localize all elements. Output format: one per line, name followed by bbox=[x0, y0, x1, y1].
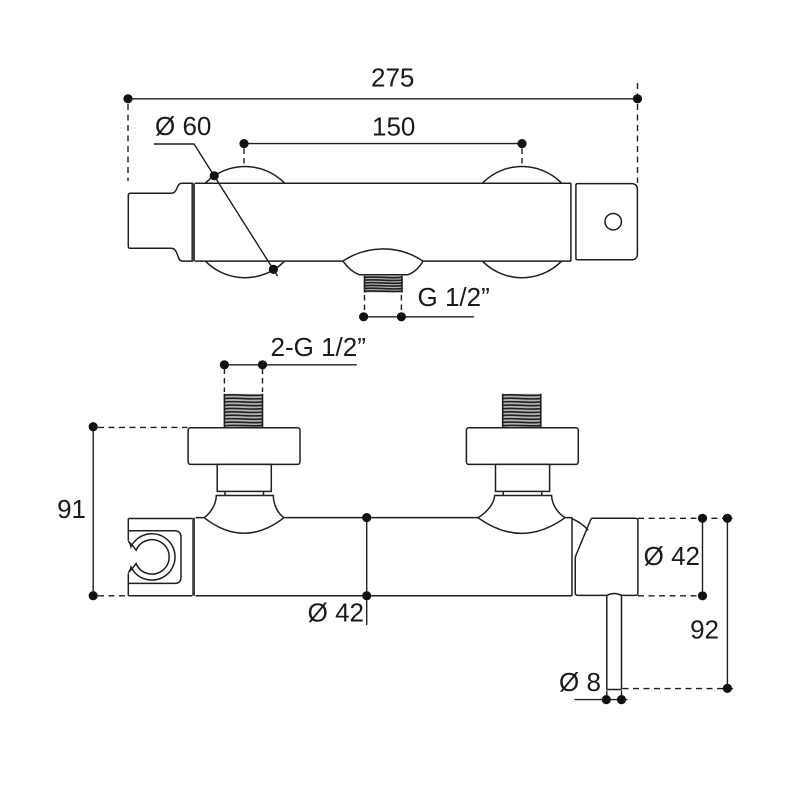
extension dashed right (275) bbox=[637, 83, 639, 183]
bar body (lower view) bbox=[196, 518, 572, 596]
svg-text:150: 150 bbox=[372, 112, 415, 142]
92 extension dashed bottom bbox=[623, 688, 734, 690]
leader line Ø60 bbox=[154, 144, 278, 276]
handle and collar (top view left end) bbox=[128, 183, 192, 261]
right inlet flange bbox=[466, 428, 578, 465]
svg-text:Ø 42: Ø 42 bbox=[644, 541, 700, 571]
bar body (top view) bbox=[194, 183, 577, 261]
DIMENSIONS LOWER VIEW bbox=[93, 365, 733, 704]
svg-text:92: 92 bbox=[690, 615, 719, 645]
elbow bend fillet arc bbox=[572, 519, 588, 530]
92 dimension line bbox=[726, 518, 728, 688]
left inlet thread bbox=[224, 394, 262, 428]
svg-text:Ø 42: Ø 42 bbox=[308, 598, 364, 628]
right inlet dome outline bbox=[478, 496, 565, 518]
91 extension dashed top bbox=[98, 426, 188, 428]
bracket C-ring holder bbox=[128, 534, 175, 580]
Ø8 dashed stubs bbox=[607, 691, 622, 705]
bar right end line (top view) bbox=[570, 183, 572, 261]
G1/2 dashed stubs bbox=[365, 295, 402, 313]
svg-text:91: 91 bbox=[57, 494, 86, 524]
right Ø42 dimension line bbox=[702, 518, 704, 596]
left inlet dome outline bbox=[204, 496, 283, 518]
extension dashed stub left (150) bbox=[243, 149, 245, 166]
left inlet flange bbox=[188, 428, 300, 465]
bracket inner plate bbox=[128, 531, 181, 584]
labels top view bbox=[155, 63, 490, 313]
svg-text:Ø 8: Ø 8 bbox=[559, 667, 601, 697]
G1/2 dimension line bbox=[364, 316, 474, 318]
outlet boss dome bbox=[343, 249, 423, 275]
outlet thread G1/2 (top view) bbox=[365, 276, 403, 293]
Ø8 dimension line bbox=[574, 699, 627, 701]
joint line handle/bar (top view) bbox=[192, 183, 195, 261]
2-G1/2 dimension line bbox=[224, 364, 356, 366]
extension dashed left (275) bbox=[127, 104, 129, 181]
escutcheon circle right (Ø60) bbox=[466, 167, 577, 278]
bar bottom edge left segment bbox=[195, 260, 343, 262]
bar bottom edge right segment bbox=[423, 260, 571, 262]
right cap (top view) bbox=[576, 184, 638, 260]
dimension 275 line bbox=[128, 98, 638, 100]
svg-text:275: 275 bbox=[371, 63, 414, 93]
dots top view bbox=[123, 94, 642, 321]
bar bottom edge bbox=[196, 595, 572, 597]
right inlet smile arc bbox=[478, 518, 565, 534]
DIMENSIONS TOP VIEW bbox=[128, 83, 638, 317]
dimension 150 line bbox=[244, 143, 522, 145]
Ø42 centre dimension line bbox=[366, 518, 368, 625]
bar top edge segments bbox=[196, 517, 572, 519]
bracket plate outline bbox=[128, 519, 192, 596]
right inlet dome fill bbox=[478, 496, 565, 518]
right elbow cap (lower view) bbox=[575, 518, 638, 595]
outlet pipe bbox=[607, 595, 622, 689]
91 extension dashed bottom bbox=[98, 595, 128, 597]
dots lower view bbox=[89, 360, 732, 704]
bar right end line (lower view) bbox=[571, 518, 573, 596]
right inlet step ring bbox=[503, 491, 542, 495]
left inlet smile arc bbox=[204, 518, 283, 533]
91 dimension line bbox=[92, 427, 94, 596]
svg-text:Ø 60: Ø 60 bbox=[155, 111, 211, 141]
bracket plate fill bbox=[128, 519, 192, 596]
right Ø42 extension dashed top bbox=[638, 517, 733, 519]
right Ø42 extension dashed bottom bbox=[638, 595, 708, 597]
right inlet thread bbox=[503, 394, 541, 428]
bar top edge bbox=[195, 182, 571, 184]
right inlet neck bbox=[496, 464, 550, 491]
joint line bracket/bar (lower view) bbox=[192, 518, 195, 596]
screw hole in right cap bbox=[605, 214, 621, 230]
left inlet dome fill bbox=[204, 496, 283, 518]
svg-text:G 1/2”: G 1/2” bbox=[418, 282, 490, 312]
left inlet neck bbox=[217, 464, 271, 491]
2-G1/2 dashed stubs bbox=[224, 369, 262, 393]
extension dashed stub right (150) bbox=[521, 149, 523, 166]
labels lower view bbox=[57, 332, 719, 697]
escutcheon circle left (Ø60) bbox=[189, 167, 300, 278]
svg-text:2-G 1/2”: 2-G 1/2” bbox=[271, 332, 366, 362]
left inlet step ring bbox=[225, 491, 264, 495]
